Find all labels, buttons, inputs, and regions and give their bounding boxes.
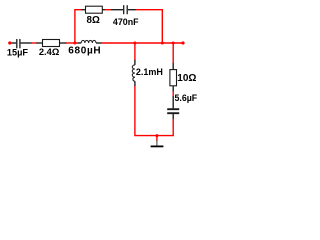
svg-text:470nF: 470nF xyxy=(113,17,139,27)
wire right branch junction D down to R3 xyxy=(172,43,174,63)
resistor R3 10ohm (vertical) xyxy=(170,63,197,91)
wire ground stub xyxy=(156,136,158,141)
wire segment between C1 and R1 xyxy=(31,42,37,44)
svg-text:2.1mH: 2.1mH xyxy=(136,67,163,77)
svg-text:10Ω: 10Ω xyxy=(177,73,196,84)
wire top branch left: up at x=75 to 8-ohm lead xyxy=(75,10,81,43)
node junction ground tap xyxy=(155,134,158,137)
svg-text:2.4Ω: 2.4Ω xyxy=(39,47,60,57)
node junction C x=162 xyxy=(161,42,164,45)
capacitor C3 5.6uF (vertical) xyxy=(167,93,198,119)
resistor R2 8ohm xyxy=(81,6,105,26)
inductor L1 680uH xyxy=(68,40,101,56)
node junction B x=135 xyxy=(133,42,136,45)
node terminal right xyxy=(181,41,184,44)
wire middle branch below L2, bottom run, up to C3 xyxy=(135,86,173,136)
ground xyxy=(151,140,164,146)
capacitor C2 470nF xyxy=(111,5,139,27)
svg-text:15µF: 15µF xyxy=(7,47,29,57)
wire top branch right: across and down at x=162.3 xyxy=(135,10,162,43)
inductor L2 2.1mH (vertical) xyxy=(132,60,163,86)
node junction D x=173 xyxy=(172,42,175,45)
wire top branch between R2 and C2 xyxy=(105,9,111,11)
svg-text:680µH: 680µH xyxy=(68,46,101,57)
wire right branch between R3 and C3 xyxy=(172,91,174,97)
wire segment L1 to right terminal xyxy=(101,42,183,44)
wire segment R1 to junction A to L1 xyxy=(66,42,78,44)
resistor R1 2.4ohm xyxy=(36,40,66,58)
svg-text:5.6µF: 5.6µF xyxy=(175,93,198,103)
node terminal left xyxy=(8,41,11,44)
svg-text:8Ω: 8Ω xyxy=(87,15,100,26)
node junction A x=75 xyxy=(73,42,76,45)
capacitor C1 15uF xyxy=(7,39,31,57)
wire middle branch above L2 xyxy=(134,43,136,60)
